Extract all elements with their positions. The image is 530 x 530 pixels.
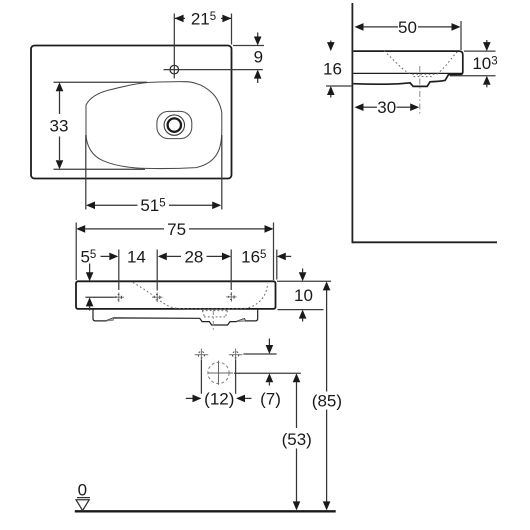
svg-text:9: 9 <box>254 47 263 66</box>
dimension 5.5 vertical arrows at left <box>89 264 91 273</box>
dimension 16 bottom extension line <box>326 85 352 87</box>
plan view: drain rounded square <box>157 111 192 138</box>
detail: anchor cross right <box>229 349 243 361</box>
dimension 21.5 right extension line <box>231 14 233 45</box>
detail: dashed drain circle <box>208 362 229 383</box>
detail: extension line at drain row <box>234 372 301 374</box>
svg-text:(85): (85) <box>312 391 342 410</box>
svg-text:(7): (7) <box>260 389 281 408</box>
svg-text:14: 14 <box>127 248 146 267</box>
dimension (7) top arrow <box>268 339 270 346</box>
svg-text:(53): (53) <box>282 430 312 449</box>
dimension 33 extension lines <box>54 81 148 83</box>
svg-text:10: 10 <box>294 286 313 305</box>
dimension chain extension line at hole 2 <box>156 250 158 291</box>
detail: anchor cross left <box>195 349 209 361</box>
side view: basin profile outline <box>353 51 463 86</box>
detail: extension line at anchor row <box>243 353 276 355</box>
svg-text:16: 16 <box>323 60 342 79</box>
front view: basin rectangle <box>76 281 276 309</box>
front view: apron right foot sliver <box>236 319 245 322</box>
front view: fixing hole cross 1 <box>114 292 124 302</box>
plan view: tap hole horizontal line / 9-dim lower extension <box>164 69 263 71</box>
svg-text:30: 30 <box>377 98 396 117</box>
dimension chain extension line at hole 1 <box>118 250 120 291</box>
dimension 28 line with arrows <box>158 253 167 261</box>
dimension (53) line with arrows <box>293 373 301 382</box>
detail: drain circle crosshairs <box>208 361 234 385</box>
front view: dashed bowl outline <box>133 283 268 309</box>
dimension 16 arrows and shafts <box>330 41 332 44</box>
plan view: drain outer circle <box>164 115 184 135</box>
side view: rim bottom line <box>353 72 462 74</box>
dimension 33 line with arrows <box>59 91 61 114</box>
dimension 10.3 arrows and shafts <box>486 40 488 43</box>
dimension 21.5 line with arrows <box>175 17 232 19</box>
floor line <box>75 510 336 512</box>
front view: apron underside outline <box>93 310 258 326</box>
svg-text:50: 50 <box>398 18 417 37</box>
side view: drain centerline dash-dot <box>419 66 421 114</box>
dimension 9 top extension line <box>233 45 264 47</box>
dimension 50 line with arrows <box>364 26 399 28</box>
dimension 75 extension lines <box>75 223 77 281</box>
svg-text:515: 515 <box>140 196 165 215</box>
dimension 10.3 extension lines <box>464 50 496 52</box>
dimension 16.5 right extension line and arrow <box>276 250 278 280</box>
dimension 51.5 extension lines <box>85 135 87 210</box>
svg-text:55: 55 <box>80 248 96 267</box>
plan view: inner basin outline <box>86 82 222 169</box>
dimension 75 line with arrows <box>85 228 164 230</box>
dimension 51.5 line with arrows <box>95 204 138 206</box>
zero level datum underline <box>77 497 90 499</box>
svg-text:(12): (12) <box>204 389 234 408</box>
front view: fixing hole cross 2 <box>152 292 162 302</box>
dimension 50 right extension line <box>460 21 462 50</box>
side view: floor line <box>352 241 497 243</box>
dimension 10 top extension line <box>277 280 331 282</box>
dimension (85) line with arrows <box>323 281 331 290</box>
dimension (7) bottom arrow <box>266 373 274 382</box>
plan view: tap hole vertical centerline <box>173 14 175 79</box>
svg-text:103: 103 <box>472 54 497 73</box>
svg-text:75: 75 <box>167 220 186 239</box>
svg-text:215: 215 <box>191 9 216 28</box>
dimension chain extension line at hole 3 <box>230 250 232 291</box>
side view: wall line <box>351 3 353 243</box>
dimension 10 bottom extension line <box>278 309 324 311</box>
front view: trap dash-dot centerline <box>212 310 214 331</box>
plan view: tap hole circle <box>170 65 179 74</box>
svg-text:28: 28 <box>184 248 203 267</box>
front view: fixing hole cross 3 <box>226 292 236 302</box>
front view: fixing holes centerline <box>85 296 116 298</box>
side view: dashed bowl profile <box>384 51 459 74</box>
plan view: drain inner circle <box>168 118 181 131</box>
svg-text:33: 33 <box>50 116 69 135</box>
dimension (12) arrows <box>186 397 193 399</box>
front view: apron left foot sliver <box>106 318 114 321</box>
side view: dashed trap top line <box>414 76 434 78</box>
plan view: washbasin outer rectangle <box>31 46 232 179</box>
svg-text:165: 165 <box>241 248 266 267</box>
dimension 30 line with arrows <box>364 106 378 108</box>
dimension (12) extension lines <box>200 360 202 394</box>
dimension 10 arrows and shafts <box>302 269 304 273</box>
front view: dashed hidden trap <box>202 311 228 317</box>
dimension 9 arrows and shafts <box>257 33 259 38</box>
zero level datum triangle <box>76 500 89 511</box>
svg-text:0: 0 <box>78 481 87 500</box>
